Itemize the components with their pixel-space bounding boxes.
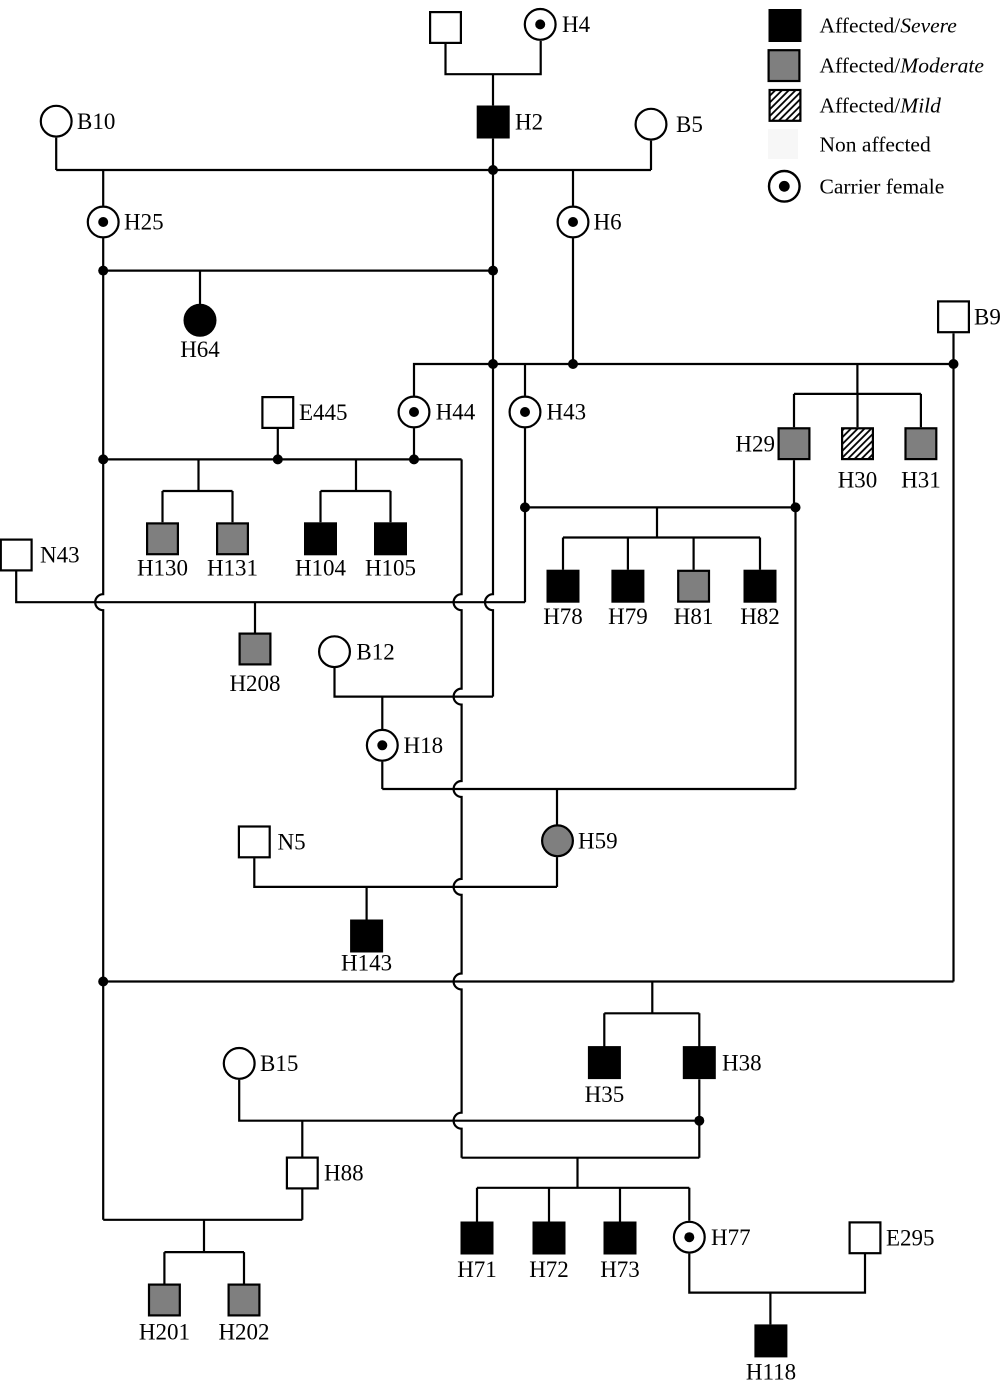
svg-text:B15: B15 xyxy=(260,1051,298,1076)
unaffected female B10 xyxy=(41,106,72,137)
wire: N5 drop and marriage line y=886.9 xyxy=(254,858,557,887)
carrier female H43 xyxy=(510,397,541,428)
wire: marriage line y=789 (H18) xyxy=(382,788,795,790)
svg-text:N43: N43 xyxy=(40,543,80,568)
svg-text:H44: H44 xyxy=(436,400,476,425)
wire: long generation line y=981.5 xyxy=(103,980,953,982)
carrier female H25 xyxy=(88,207,119,238)
moderate affected male H29 xyxy=(779,428,810,459)
wire: H6 drop from line y=170 xyxy=(572,170,574,206)
svg-text:H2: H2 xyxy=(515,110,543,135)
wire: sibship H35/H38 xyxy=(604,982,699,1047)
affected male H38 xyxy=(684,1047,715,1078)
svg-text:B10: B10 xyxy=(77,109,115,134)
moderate affected male H130 xyxy=(147,523,178,554)
svg-text:H78: H78 xyxy=(543,604,583,629)
affected male H105 xyxy=(375,523,406,554)
unaffected male (top ancestor) xyxy=(430,12,461,43)
wire: sibship H71/H72/H73/H77 xyxy=(477,1158,689,1222)
wire: right vertical from dot y=507.4 down to H18 marriage line xyxy=(794,507,796,789)
junction dot (795.5,507.4) xyxy=(791,502,801,512)
wire: sibship H78/H79/H81/H82 xyxy=(563,507,760,569)
svg-text:N5: N5 xyxy=(278,830,306,855)
affected female H64 xyxy=(185,305,216,336)
svg-text:H82: H82 xyxy=(740,604,780,629)
wire: H18 descent to marriage line y=789 xyxy=(381,762,383,789)
junction dot (699.3,1120.7) xyxy=(694,1116,704,1126)
wire: marriage line y=507.4 (H43 x H29) xyxy=(525,506,796,508)
wire: H59 riser from line y=789 xyxy=(556,789,558,825)
wire: H38 descent through B15 line to line y=1157.7 xyxy=(698,1079,700,1157)
unaffected male E445 xyxy=(262,397,293,428)
svg-text:Non affected: Non affected xyxy=(820,133,931,157)
wire: generation line y=170 (B10 - H2 - B5) xyxy=(55,138,57,170)
wire: marriage bar of top couple with descent to H2 xyxy=(446,41,541,74)
junction dot (277.8,459.4) xyxy=(273,454,283,464)
svg-text:E295: E295 xyxy=(886,1226,935,1251)
wire: left vertical under H25 down to H88 marriage corner xyxy=(95,238,103,1220)
svg-text:Affected/Moderate: Affected/Moderate xyxy=(820,54,985,78)
svg-text:H118: H118 xyxy=(746,1360,796,1385)
wire: H59 descent to marriage line y=886.9 xyxy=(556,857,558,887)
unaffected female B12 xyxy=(319,636,350,667)
wire: H143 drop xyxy=(366,887,368,920)
mild affected male H30 xyxy=(842,428,873,459)
wire: H25 drop from line y=170 xyxy=(102,170,104,206)
affected male H143 xyxy=(351,921,382,952)
legend swatch Affected/Mild xyxy=(770,90,801,121)
svg-text:H25: H25 xyxy=(124,210,164,235)
svg-text:H202: H202 xyxy=(218,1320,269,1345)
wire: H29 descent to marriage line y=507.4 xyxy=(793,460,795,507)
junction dot (525,507.4) xyxy=(520,502,530,512)
unaffected male B9 xyxy=(938,301,969,332)
moderate affected male H202 xyxy=(229,1285,260,1316)
wire: H77 x E295 marriage and descent to H118 xyxy=(689,1254,865,1293)
svg-text:H201: H201 xyxy=(139,1320,190,1345)
moderate affected female H59 xyxy=(542,825,573,856)
svg-text:B12: B12 xyxy=(356,640,394,665)
affected male H78 xyxy=(548,571,579,602)
carrier female H77 xyxy=(674,1222,705,1253)
moderate affected male H31 xyxy=(906,428,937,459)
moderate affected male H81 xyxy=(678,571,709,602)
svg-text:H77: H77 xyxy=(711,1225,751,1250)
svg-text:H72: H72 xyxy=(529,1257,569,1282)
wire: sibship H130/H131 xyxy=(163,459,233,522)
carrier female H6 xyxy=(558,207,589,238)
svg-text:H81: H81 xyxy=(674,604,714,629)
svg-text:H29: H29 xyxy=(735,431,775,456)
carrier female H18 xyxy=(367,730,398,761)
junction dot (953.5,364) xyxy=(949,359,959,369)
affected male H79 xyxy=(613,571,644,602)
affected male H73 xyxy=(605,1223,636,1254)
affected male H82 xyxy=(745,571,776,602)
wire: H18 riser xyxy=(381,697,383,729)
wire: E445 drop xyxy=(277,429,279,459)
wire: H43 vertical through dot to N43 line end xyxy=(524,428,526,602)
svg-text:H64: H64 xyxy=(180,337,220,362)
wire: sibship H201/H202 xyxy=(164,1220,244,1284)
svg-text:Carrier female: Carrier female xyxy=(820,174,945,198)
moderate affected male H208 xyxy=(240,634,271,665)
svg-text:H143: H143 xyxy=(341,951,392,976)
wire: H64 drop xyxy=(199,271,201,304)
unaffected female B5 xyxy=(636,109,667,140)
svg-text:H104: H104 xyxy=(295,556,347,581)
svg-text:E445: E445 xyxy=(299,400,348,425)
wire: B15 drop and marriage line y=1120.7 xyxy=(239,1080,699,1121)
junction dot (103.2,270.6) xyxy=(98,266,108,276)
wire: N43 drop and marriage line y=602.2 xyxy=(16,571,525,602)
junction dot (573,364) xyxy=(568,359,578,369)
affected male H35 xyxy=(589,1047,620,1078)
svg-text:Affected/Mild: Affected/Mild xyxy=(820,93,942,117)
legend swatch Non affected xyxy=(768,129,798,159)
wire: B9 vertical from square down to long line y=981.5 xyxy=(952,333,954,981)
carrier female H4 xyxy=(525,9,556,40)
svg-text:H18: H18 xyxy=(404,733,444,758)
svg-text:H208: H208 xyxy=(229,671,280,696)
wire: marriage line y=1157.7 xyxy=(462,1157,700,1159)
wire: sibship H29/H30/H31 from line y=364 xyxy=(794,364,921,427)
affected male H104 xyxy=(305,523,336,554)
svg-text:H105: H105 xyxy=(365,556,416,581)
svg-text:H6: H6 xyxy=(594,210,622,235)
svg-text:H35: H35 xyxy=(585,1082,625,1107)
junction dot (493,270.6) xyxy=(488,266,498,276)
junction dot (493,364) xyxy=(488,359,498,369)
wire: H43 drop from line y=364 xyxy=(524,364,526,396)
svg-text:H79: H79 xyxy=(608,604,648,629)
wire: B12 drop and marriage line y=696.6 xyxy=(335,668,494,697)
affected male H118 xyxy=(756,1326,787,1357)
wire: marriage line y=270.6 (H25 family) xyxy=(103,270,493,272)
affected male H72 xyxy=(534,1223,565,1254)
svg-text:H43: H43 xyxy=(547,400,587,425)
wire: marriage line y=1219.8 (left vertical x H88) xyxy=(103,1219,302,1221)
svg-text:H4: H4 xyxy=(562,12,591,37)
wire: H2 vertical line down to B12 marriage xyxy=(485,139,493,697)
wire: generation line y=364 with corner down to H44 xyxy=(414,364,954,396)
svg-text:B5: B5 xyxy=(676,112,703,137)
unaffected male H88 xyxy=(287,1158,318,1189)
unaffected female B15 xyxy=(224,1048,255,1079)
svg-text:H31: H31 xyxy=(901,468,941,493)
svg-text:H73: H73 xyxy=(600,1257,640,1282)
wire: sibship H104/H105 xyxy=(321,459,391,522)
unaffected male N5 xyxy=(239,827,270,858)
legend symbol Carrier female xyxy=(769,171,800,202)
svg-text:H88: H88 xyxy=(324,1161,364,1186)
wire: marriage line y=459.4 turning down as central vertical A xyxy=(103,458,461,460)
svg-text:H38: H38 xyxy=(722,1050,762,1075)
junction dot (103.2,459.4) xyxy=(98,454,108,464)
svg-text:H30: H30 xyxy=(838,468,878,493)
unaffected male N43 xyxy=(1,540,32,571)
svg-text:H131: H131 xyxy=(207,556,258,581)
svg-text:H130: H130 xyxy=(137,556,188,581)
junction dot (103.2,981.5) xyxy=(98,977,108,987)
junction dot (414,459.4) xyxy=(409,454,419,464)
affected male H71 xyxy=(462,1223,493,1254)
wire: H208 drop xyxy=(254,602,256,633)
moderate affected male H131 xyxy=(217,523,248,554)
carrier female H44 xyxy=(399,397,430,428)
svg-text:H71: H71 xyxy=(457,1257,497,1282)
junction dot (493,170) xyxy=(488,165,498,175)
svg-text:B9: B9 xyxy=(974,305,1000,330)
wire: H88 riser from B15 line xyxy=(301,1121,303,1157)
affected male H2 xyxy=(478,107,509,138)
moderate affected male H201 xyxy=(149,1285,180,1316)
svg-text:Affected/Severe: Affected/Severe xyxy=(820,14,958,38)
unaffected male E295 xyxy=(850,1222,881,1253)
svg-text:H59: H59 xyxy=(578,829,618,854)
wire: H6 vertical to line y=364 xyxy=(572,238,574,364)
wire: H88 descent to marriage line y=1219.8 xyxy=(301,1189,303,1220)
legend swatch Affected/Severe xyxy=(770,10,801,41)
wire: H44 drop to E445 marriage line xyxy=(413,428,415,459)
legend swatch Affected/Moderate xyxy=(769,50,800,81)
